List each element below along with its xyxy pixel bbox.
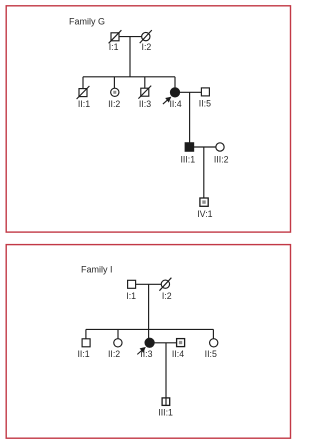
svg-text:II:1: II:1 <box>78 99 90 109</box>
drop wire to II:3 (G) <box>144 77 146 89</box>
marriage line I:1-I:2 (G) <box>119 36 142 38</box>
svg-text:Family G: Family G <box>69 17 105 27</box>
descent line I couple through sibship to II:3 (I) <box>148 284 150 338</box>
sibship line generation II (G) <box>83 76 175 78</box>
marriage line II:3-II:4 (I) <box>154 342 177 344</box>
drop wire to II:2 (G) <box>113 77 115 89</box>
panel frame Family I <box>6 245 290 439</box>
drop wire to II:5 (I) <box>212 329 214 338</box>
descent line I couple to sibship (G) <box>129 37 131 77</box>
svg-text:IV:1: IV:1 <box>197 209 212 219</box>
individual II:4 affected female proband (G) <box>170 88 179 97</box>
individual III:2 female (G) <box>216 143 224 151</box>
svg-text:III:1: III:1 <box>158 407 173 417</box>
drop wire to II:1 (I) <box>85 329 87 338</box>
individual II:5 female (I) <box>210 339 218 347</box>
descent line III couple to IV:1 (G) <box>203 147 205 198</box>
individual I:2 deceased female (G) <box>140 30 152 43</box>
marriage line II:4-II:5 (G) <box>179 91 201 93</box>
svg-text:I:1: I:1 <box>109 42 119 52</box>
svg-text:II:5: II:5 <box>205 349 217 359</box>
drop wire to II:4 (G) <box>174 77 176 88</box>
individual III:1 affected male (G) <box>185 143 193 151</box>
individual II:2 female (I) <box>114 339 122 347</box>
svg-text:III:1: III:1 <box>180 154 195 164</box>
individual II:3 affected female proband (I) <box>145 338 154 347</box>
individual I:1 male (I) <box>128 280 136 288</box>
individual II:4 male with inner mark (I) <box>177 339 185 347</box>
descent line II:3 couple to III:1 (I) <box>165 343 167 405</box>
svg-text:II:4: II:4 <box>172 349 184 359</box>
individual II:2 female with inner mark (G) <box>111 88 119 96</box>
proband arrow II:3 (I) <box>137 348 145 355</box>
individual II:5 male (G) <box>201 88 209 96</box>
individual II:1 male (I) <box>82 339 90 347</box>
sibship line generation II (I) <box>86 328 213 330</box>
svg-text:II:2: II:2 <box>108 349 120 359</box>
individual I:2 deceased female (I) <box>159 278 171 291</box>
svg-text:II:1: II:1 <box>77 349 89 359</box>
svg-text:II:4: II:4 <box>169 99 181 109</box>
svg-text:II:3: II:3 <box>139 99 151 109</box>
svg-text:II:5: II:5 <box>199 99 211 109</box>
marriage line III:1-III:2 (G) <box>193 146 216 148</box>
marriage line I:1-I:2 (I) <box>136 283 162 285</box>
drop wire to II:2 (I) <box>117 329 119 339</box>
svg-text:III:2: III:2 <box>214 154 229 164</box>
svg-text:II:2: II:2 <box>108 99 120 109</box>
individual II:1 deceased male (G) <box>77 86 90 99</box>
svg-text:I:2: I:2 <box>162 291 172 301</box>
drop wire to II:1 (G) <box>82 77 84 89</box>
individual I:1 deceased male (G) <box>109 30 122 43</box>
svg-text:Family I: Family I <box>81 264 113 274</box>
individual IV:1 male with inner mark (G) <box>200 198 208 206</box>
svg-text:I:1: I:1 <box>126 291 136 301</box>
svg-text:II:3: II:3 <box>140 349 152 359</box>
descent line II:4 couple to III:1 (G) <box>189 92 191 143</box>
panel frame Family G <box>6 6 290 232</box>
individual II:3 deceased male (G) <box>138 86 151 99</box>
svg-text:I:2: I:2 <box>142 42 152 52</box>
proband arrow II:4 (G) <box>163 97 171 104</box>
individual III:1 male with vertical line (I) <box>162 398 170 406</box>
